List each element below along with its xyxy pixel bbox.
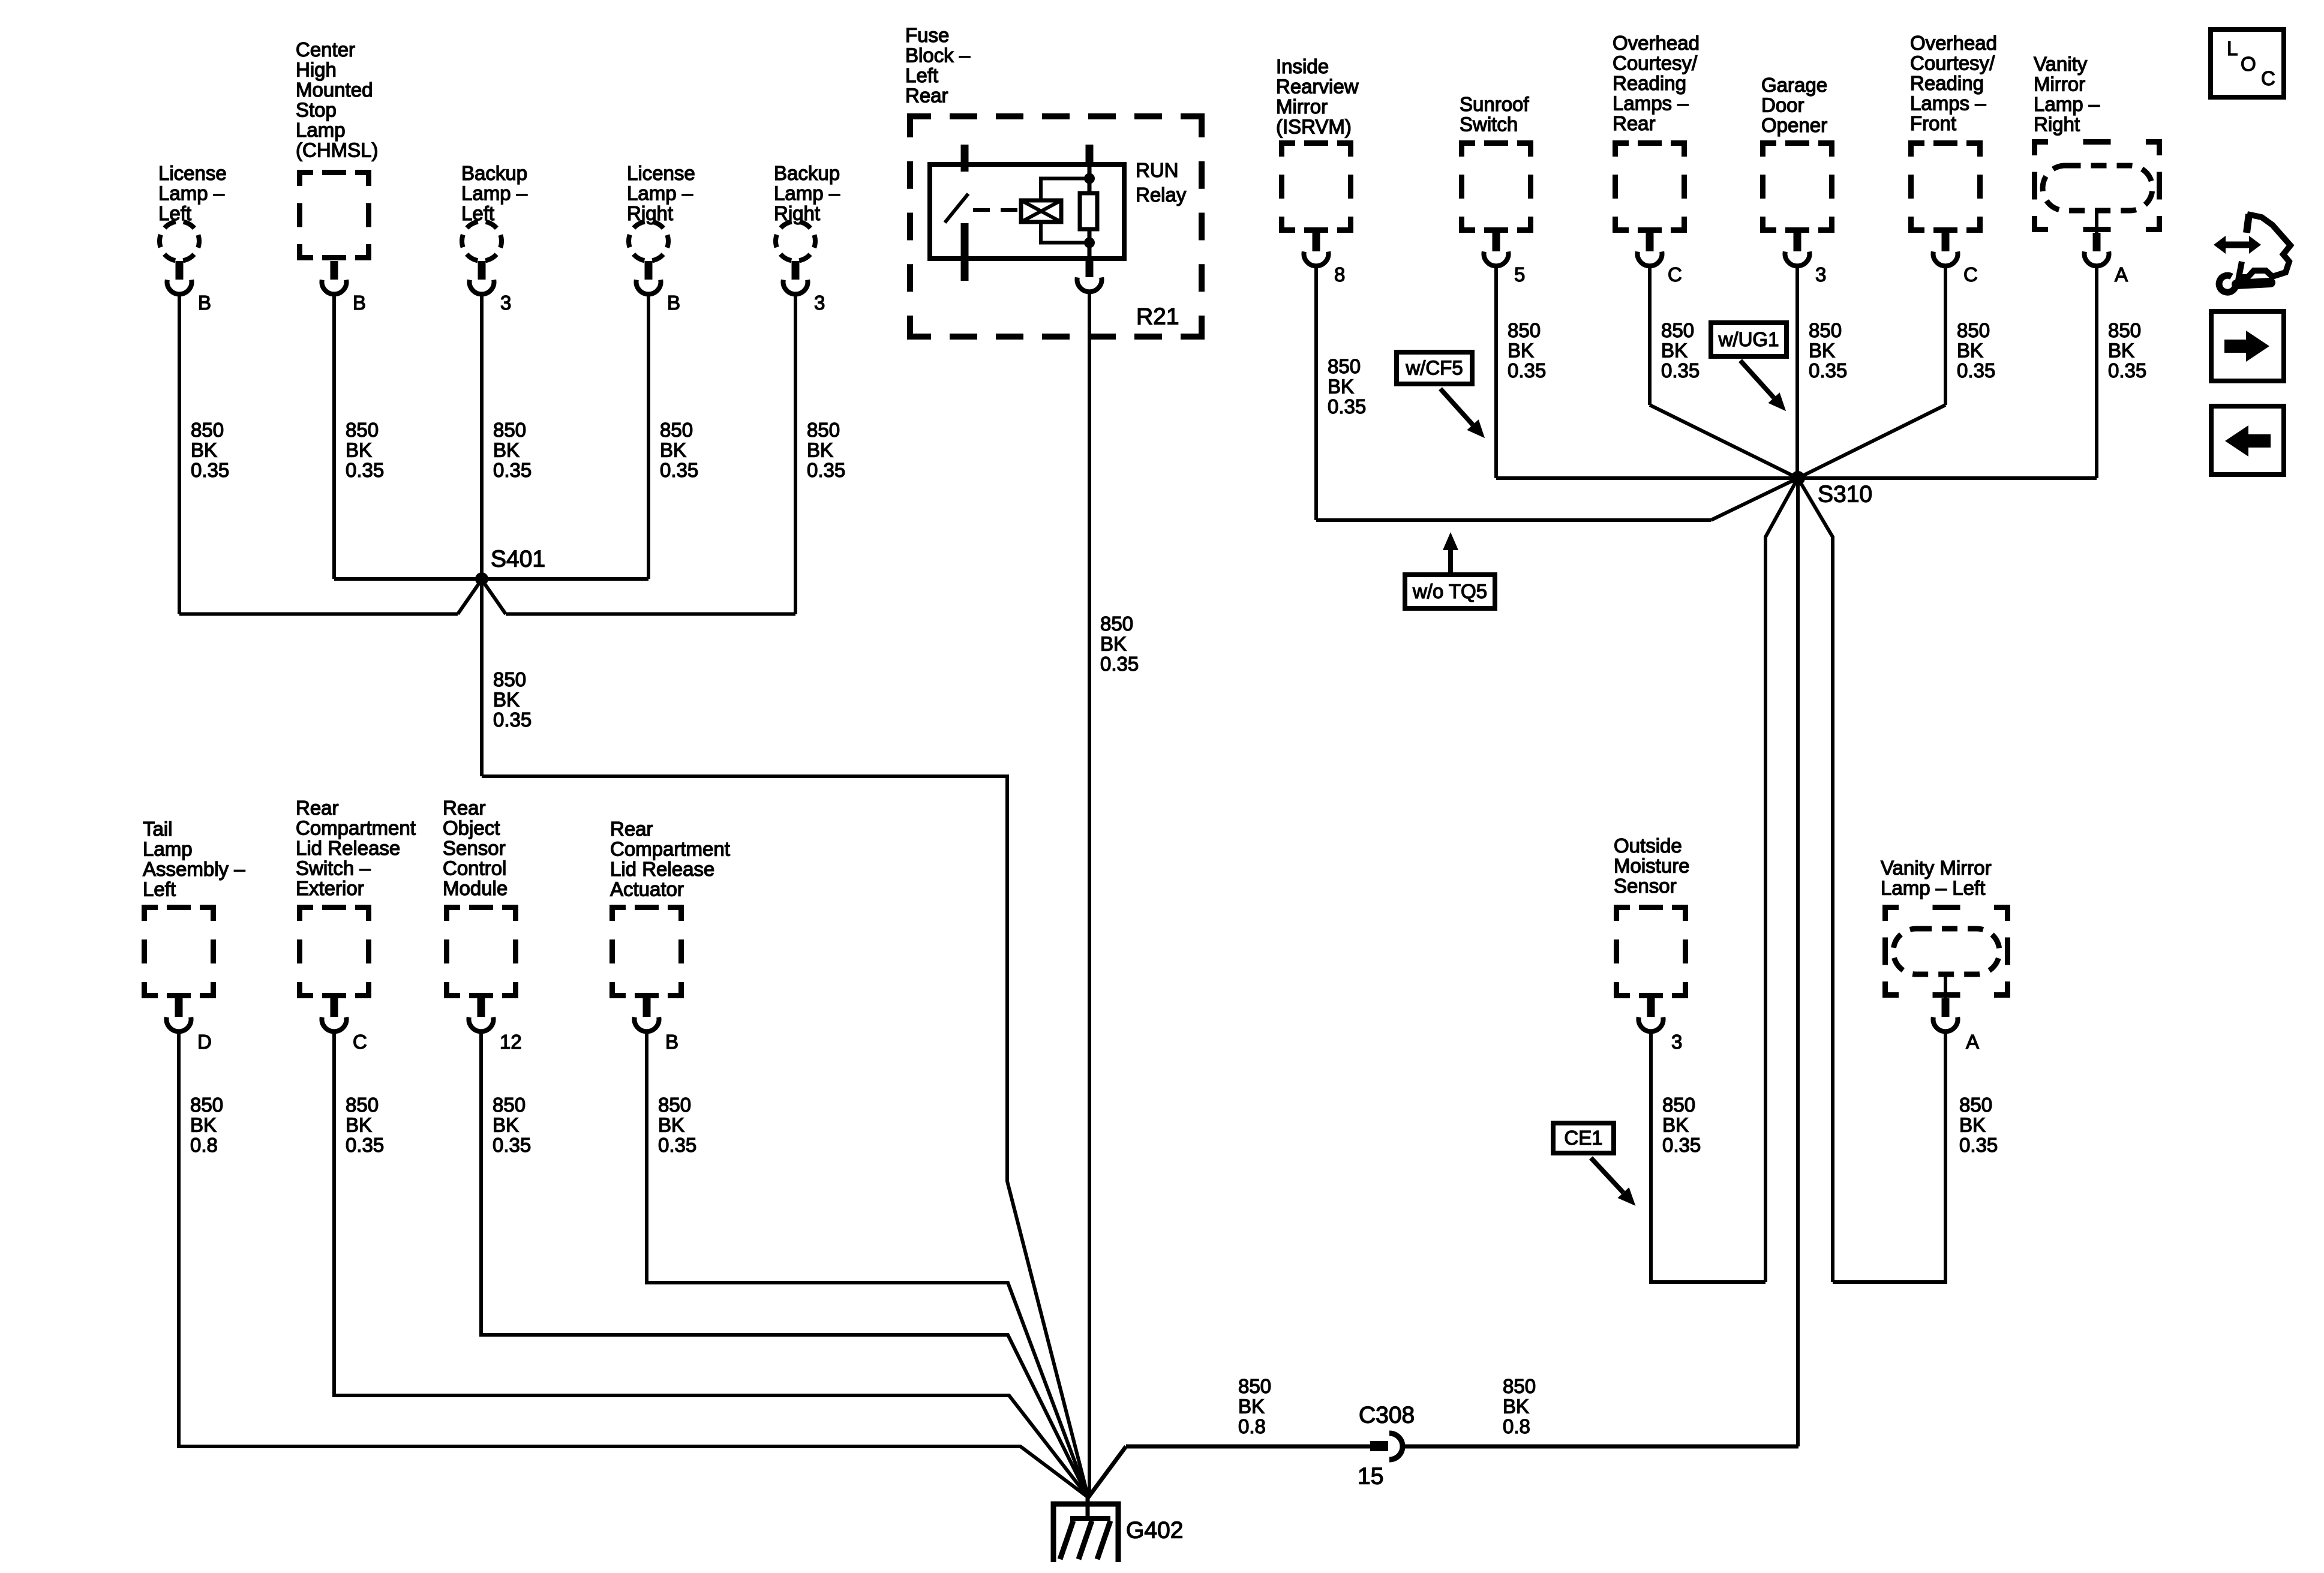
svg-text:850: 850 [346, 419, 379, 441]
svg-text:Lid Release: Lid Release [296, 837, 400, 859]
svg-text:Right: Right [2034, 113, 2080, 136]
svg-text:BK: BK [1957, 340, 1983, 362]
svg-text:Overhead: Overhead [1613, 32, 1700, 54]
svg-text:850: 850 [1238, 1375, 1271, 1397]
svg-text:BK: BK [493, 1114, 519, 1136]
svg-text:0.35: 0.35 [1662, 1134, 1701, 1156]
svg-text:5: 5 [1514, 263, 1525, 286]
svg-text:0.8: 0.8 [190, 1134, 218, 1156]
svg-text:850: 850 [190, 1094, 223, 1116]
svg-text:3: 3 [1671, 1031, 1682, 1053]
svg-text:w/o TQ5: w/o TQ5 [1412, 580, 1487, 602]
svg-text:Control: Control [443, 857, 506, 879]
svg-text:850: 850 [1503, 1375, 1536, 1397]
svg-text:Lamps –: Lamps – [1910, 92, 1986, 115]
svg-text:BK: BK [807, 439, 833, 461]
svg-text:BK: BK [1328, 376, 1354, 398]
svg-text:Stop: Stop [296, 99, 337, 121]
svg-text:BK: BK [1662, 1114, 1689, 1136]
svg-text:Actuator: Actuator [610, 878, 684, 900]
svg-text:BK: BK [1809, 340, 1835, 362]
svg-text:w/CF5: w/CF5 [1405, 357, 1463, 379]
svg-text:850: 850 [1959, 1094, 1992, 1116]
svg-text:8: 8 [1334, 263, 1345, 286]
svg-text:Mirror: Mirror [1276, 95, 1328, 118]
svg-text:0.35: 0.35 [1100, 653, 1139, 675]
svg-text:BK: BK [660, 439, 686, 461]
svg-text:0.35: 0.35 [1959, 1134, 1998, 1156]
svg-text:Opener: Opener [1761, 114, 1827, 136]
svg-text:850: 850 [493, 1094, 526, 1116]
svg-text:BK: BK [346, 1114, 372, 1136]
svg-text:Lamp – Left: Lamp – Left [1881, 877, 1985, 899]
svg-text:0.35: 0.35 [1661, 359, 1700, 382]
svg-text:Overhead: Overhead [1910, 32, 1997, 54]
svg-text:Lamp –: Lamp – [2034, 93, 2100, 115]
svg-text:Assembly –: Assembly – [143, 858, 245, 880]
svg-text:Lamp –: Lamp – [158, 182, 225, 205]
svg-text:BK: BK [1238, 1395, 1265, 1418]
svg-text:BK: BK [493, 689, 520, 711]
svg-text:C: C [2261, 67, 2275, 89]
svg-text:0.35: 0.35 [1809, 359, 1847, 382]
svg-text:Left: Left [143, 878, 176, 900]
svg-text:Tail: Tail [143, 818, 173, 840]
svg-text:Lamps –: Lamps – [1613, 92, 1689, 115]
svg-text:850: 850 [191, 419, 224, 441]
svg-text:(CHMSL): (CHMSL) [296, 139, 379, 161]
svg-text:Door: Door [1761, 94, 1804, 116]
svg-text:License: License [158, 162, 227, 184]
svg-text:850: 850 [660, 419, 693, 441]
svg-text:w/UG1: w/UG1 [1718, 328, 1779, 350]
svg-text:Rear: Rear [610, 818, 653, 840]
svg-text:Exterior: Exterior [296, 877, 364, 899]
svg-text:Center: Center [296, 38, 355, 61]
svg-text:BK: BK [346, 439, 372, 461]
svg-text:Fuse: Fuse [905, 24, 949, 46]
svg-text:Reading: Reading [1613, 72, 1686, 94]
svg-text:Module: Module [443, 877, 508, 899]
svg-text:B: B [353, 292, 366, 314]
svg-text:850: 850 [1809, 319, 1842, 341]
svg-text:3: 3 [500, 292, 511, 314]
svg-text:Object: Object [443, 817, 500, 839]
svg-text:Right: Right [627, 202, 673, 224]
svg-text:C: C [1963, 263, 1978, 286]
svg-text:850: 850 [493, 419, 526, 441]
svg-text:Left: Left [905, 64, 938, 86]
svg-text:B: B [667, 292, 680, 314]
svg-text:B: B [665, 1031, 678, 1053]
svg-text:15: 15 [1358, 1463, 1383, 1489]
svg-text:Compartment: Compartment [610, 838, 730, 860]
svg-text:C308: C308 [1359, 1402, 1415, 1428]
svg-text:0.35: 0.35 [493, 709, 532, 731]
svg-text:3: 3 [1815, 263, 1826, 286]
svg-text:License: License [627, 162, 695, 184]
svg-text:850: 850 [346, 1094, 379, 1116]
svg-text:0.35: 0.35 [658, 1134, 696, 1156]
svg-text:RUN: RUN [1136, 159, 1179, 181]
svg-text:0.35: 0.35 [1957, 359, 1995, 382]
svg-text:850: 850 [493, 668, 526, 691]
svg-text:850: 850 [1508, 319, 1541, 341]
svg-text:Rearview: Rearview [1276, 76, 1359, 98]
svg-text:BK: BK [658, 1114, 684, 1136]
svg-text:(ISRVM): (ISRVM) [1276, 116, 1352, 138]
svg-text:Sunroof: Sunroof [1460, 93, 1529, 115]
svg-text:12: 12 [500, 1031, 522, 1053]
svg-text:Rear: Rear [1613, 112, 1656, 134]
svg-text:Rear: Rear [296, 797, 339, 819]
svg-text:Right: Right [774, 202, 820, 224]
svg-text:Lamp: Lamp [143, 838, 193, 860]
svg-text:D: D [197, 1031, 212, 1053]
svg-text:Rear: Rear [905, 85, 948, 107]
svg-text:G402: G402 [1126, 1517, 1183, 1543]
svg-text:850: 850 [1661, 319, 1694, 341]
svg-text:A: A [2115, 263, 2128, 286]
svg-text:0.35: 0.35 [1508, 359, 1546, 382]
svg-text:Rear: Rear [443, 797, 486, 819]
svg-text:Sensor: Sensor [443, 837, 506, 859]
svg-text:BK: BK [191, 439, 217, 461]
svg-text:0.35: 0.35 [493, 1134, 531, 1156]
svg-text:Front: Front [1910, 112, 1956, 134]
svg-text:Block –: Block – [905, 44, 971, 67]
svg-text:High: High [296, 59, 337, 81]
svg-text:0.35: 0.35 [2108, 359, 2146, 382]
svg-text:BK: BK [1959, 1114, 1986, 1136]
svg-text:BK: BK [190, 1114, 217, 1136]
svg-text:850: 850 [2108, 319, 2141, 341]
svg-text:Mounted: Mounted [296, 79, 373, 101]
svg-text:Lamp –: Lamp – [461, 182, 528, 205]
svg-text:0.35: 0.35 [1328, 395, 1366, 418]
svg-text:Relay: Relay [1136, 184, 1187, 206]
svg-text:C: C [353, 1031, 367, 1053]
svg-text:850: 850 [1662, 1094, 1695, 1116]
svg-text:0.8: 0.8 [1503, 1415, 1530, 1437]
svg-text:CE1: CE1 [1564, 1127, 1602, 1149]
svg-text:Lamp –: Lamp – [627, 182, 693, 205]
svg-text:Outside: Outside [1614, 834, 1682, 857]
svg-text:850: 850 [1100, 613, 1133, 635]
svg-text:Lamp –: Lamp – [774, 182, 840, 205]
svg-text:BK: BK [1508, 340, 1534, 362]
svg-text:Switch –: Switch – [296, 857, 371, 879]
svg-text:BK: BK [493, 439, 520, 461]
svg-text:BK: BK [1100, 633, 1127, 655]
svg-text:Switch: Switch [1460, 113, 1518, 136]
svg-text:Courtesy/: Courtesy/ [1910, 52, 1995, 74]
svg-text:Lid Release: Lid Release [610, 858, 714, 880]
svg-text:Mirror: Mirror [2034, 73, 2085, 95]
svg-text:0.35: 0.35 [660, 459, 698, 481]
svg-text:B: B [198, 292, 211, 314]
svg-text:O: O [2241, 53, 2256, 75]
svg-text:850: 850 [658, 1094, 691, 1116]
svg-text:Sensor: Sensor [1614, 875, 1677, 897]
svg-text:C: C [1668, 263, 1682, 286]
svg-text:Compartment: Compartment [296, 817, 416, 839]
svg-text:850: 850 [1328, 355, 1361, 377]
svg-text:Courtesy/: Courtesy/ [1613, 52, 1698, 74]
svg-text:Vanity: Vanity [2034, 53, 2088, 75]
svg-text:0.35: 0.35 [346, 1134, 384, 1156]
svg-text:Moisture: Moisture [1614, 855, 1690, 877]
svg-text:0.35: 0.35 [493, 459, 532, 481]
svg-text:Reading: Reading [1910, 72, 1984, 94]
svg-text:R21: R21 [1136, 304, 1179, 329]
svg-text:Vanity Mirror: Vanity Mirror [1881, 857, 1992, 879]
svg-text:3: 3 [814, 292, 825, 314]
svg-text:BK: BK [1503, 1395, 1529, 1418]
svg-text:0.35: 0.35 [807, 459, 845, 481]
svg-text:Lamp: Lamp [296, 119, 346, 141]
svg-text:850: 850 [1957, 319, 1990, 341]
svg-text:BK: BK [1661, 340, 1688, 362]
svg-text:850: 850 [807, 419, 840, 441]
svg-text:A: A [1966, 1031, 1979, 1053]
svg-text:0.8: 0.8 [1238, 1415, 1266, 1437]
svg-text:Garage: Garage [1761, 74, 1827, 96]
svg-text:Inside: Inside [1276, 55, 1329, 77]
svg-text:L: L [2227, 37, 2238, 59]
svg-text:S401: S401 [491, 546, 545, 572]
svg-text:0.35: 0.35 [346, 459, 384, 481]
svg-text:0.35: 0.35 [191, 459, 229, 481]
svg-text:BK: BK [2108, 340, 2134, 362]
svg-text:Backup: Backup [774, 162, 840, 184]
svg-text:S310: S310 [1818, 481, 1872, 507]
svg-text:Backup: Backup [461, 162, 527, 184]
